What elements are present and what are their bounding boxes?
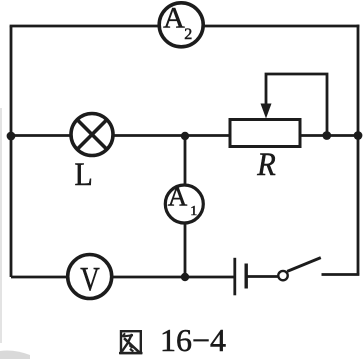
switch lever xyxy=(287,258,321,272)
wire middle: resistor to right wire xyxy=(300,134,358,137)
wire bottom: left wire to voltmeter xyxy=(11,276,67,279)
wire top left segment xyxy=(10,25,158,28)
wire left vertical xyxy=(10,26,13,277)
battery long plate xyxy=(233,258,236,296)
wire top right segment xyxy=(205,25,360,28)
svg-text:L: L xyxy=(75,157,93,193)
wire bottom: voltmeter to battery xyxy=(113,276,234,279)
junction node slider-middle xyxy=(322,131,331,140)
junction node A1 bottom xyxy=(181,273,189,281)
battery short plate xyxy=(244,264,247,289)
wire right vertical xyxy=(357,25,360,275)
switch pivot xyxy=(278,271,287,280)
scan artifact: bottom-left smudge xyxy=(0,351,30,359)
resistor R xyxy=(230,120,300,184)
svg-text:R: R xyxy=(256,147,275,183)
wire middle: lamp to resistor xyxy=(114,134,231,137)
svg-text:V: V xyxy=(80,261,100,298)
scan artifact: faint left-edge streak xyxy=(0,108,2,343)
svg-text:A: A xyxy=(163,2,185,35)
caption character 图 xyxy=(119,331,143,353)
wire battery to switch xyxy=(248,275,279,278)
junction node A1 top xyxy=(181,132,189,140)
svg-text:A: A xyxy=(168,182,188,212)
wire switch contact to right wire xyxy=(322,273,360,276)
svg-text:2: 2 xyxy=(184,26,192,43)
ammeter A1 xyxy=(165,182,203,223)
svg-text:1: 1 xyxy=(190,204,197,219)
wire A1 branch lower xyxy=(184,224,187,277)
junction node left-middle xyxy=(7,132,16,141)
junction node right-middle xyxy=(354,131,363,140)
ammeter A2 xyxy=(159,2,203,47)
wire A1 branch upper xyxy=(184,136,187,185)
voltmeter V xyxy=(68,255,112,299)
lamp L xyxy=(71,114,113,194)
wire middle: left wire to lamp xyxy=(11,134,71,137)
svg-text:16−4: 16−4 xyxy=(160,322,226,358)
slider wire loop with arrow xyxy=(261,74,328,136)
